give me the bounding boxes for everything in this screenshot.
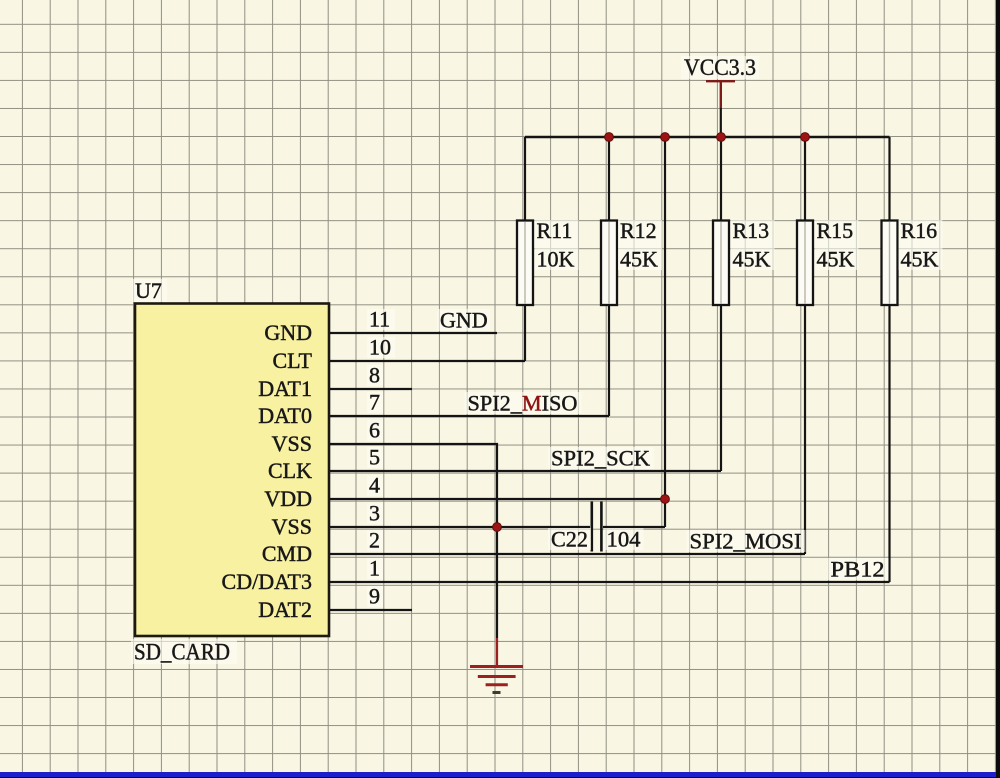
- junction dot pin 3 VSS / ground: [493, 523, 502, 532]
- resistor R16: [882, 218, 943, 305]
- svg-text:R15: R15: [817, 218, 854, 243]
- svg-text:3: 3: [369, 501, 380, 526]
- capacitor C22 designator: [548, 527, 591, 552]
- svg-text:CMD: CMD: [262, 541, 312, 566]
- pin 8 DAT1 wire: [330, 388, 412, 390]
- svg-text:2: 2: [369, 528, 380, 553]
- svg-text:CD/DAT3: CD/DAT3: [222, 569, 312, 594]
- svg-text:10K: 10K: [537, 247, 575, 272]
- pin number 8: [367, 363, 383, 388]
- pin number 2: [367, 528, 383, 553]
- svg-text:SPI2_MOSI: SPI2_MOSI: [690, 529, 802, 554]
- svg-text:10: 10: [369, 335, 391, 360]
- svg-text:SD_CARD: SD_CARD: [134, 640, 230, 665]
- svg-text:5: 5: [369, 445, 380, 470]
- svg-text:VSS: VSS: [272, 431, 312, 456]
- resistor R13: [713, 218, 775, 305]
- svg-text:SPI2_MISO: SPI2_MISO: [468, 391, 578, 416]
- svg-text:45K: 45K: [817, 247, 855, 272]
- resistor R15: [797, 218, 859, 305]
- svg-text:GND: GND: [440, 308, 488, 333]
- pin 3 VSS wire to C22 left plate: [330, 526, 590, 528]
- svg-text:R11: R11: [537, 218, 573, 243]
- svg-text:R16: R16: [901, 218, 938, 243]
- pin number 10: [367, 335, 395, 360]
- junction dot bus at R12: [605, 133, 614, 142]
- junction dot bus at VDD vertical: [661, 133, 670, 142]
- wire R12 vertical: [608, 137, 610, 416]
- junction dot pin 4 VDD: [661, 495, 670, 504]
- svg-text:CLT: CLT: [272, 348, 312, 373]
- svg-text:SPI2_SCK: SPI2_SCK: [551, 446, 650, 471]
- junction dot bus at R15: [801, 133, 810, 142]
- wire VDD vertical (VCC to pin 4 and C22): [664, 137, 666, 527]
- resistor R12: [601, 218, 662, 305]
- svg-text:DAT1: DAT1: [258, 376, 312, 401]
- svg-text:PB12: PB12: [831, 557, 885, 582]
- svg-text:45K: 45K: [901, 247, 939, 272]
- wire VCC stem to bus: [720, 108, 722, 137]
- wire R15 vertical: [804, 137, 806, 554]
- pin 10 CLT wire: [330, 360, 525, 362]
- power flag VCC3.3 label: [681, 55, 759, 80]
- svg-text:GND: GND: [264, 320, 312, 345]
- pin 7 DAT0 wire: [330, 415, 609, 417]
- svg-text:R13: R13: [733, 218, 770, 243]
- pin number 7: [367, 390, 383, 415]
- ground symbol small bottom tick: [493, 691, 501, 694]
- svg-text:11: 11: [369, 307, 390, 332]
- pin 1 CD/DAT3 wire: [330, 581, 890, 583]
- net label SPI2_SCK: [548, 446, 654, 471]
- pin 11 GND wire: [330, 332, 497, 334]
- pin number 3: [367, 501, 383, 526]
- pin 2 CMD wire: [330, 553, 805, 555]
- svg-text:U7: U7: [135, 278, 162, 303]
- pin 4 VDD wire: [330, 498, 665, 500]
- svg-text:R12: R12: [620, 218, 657, 243]
- svg-text:VDD: VDD: [264, 486, 312, 511]
- junction dot bus at R13 / VCC stem: [717, 133, 726, 142]
- capacitor C22 plates: [592, 502, 602, 552]
- power flag VCC3.3 bar symbol: [706, 81, 735, 108]
- pin 6 VSS wire to ground: [330, 444, 497, 638]
- pin number 5: [367, 445, 383, 470]
- svg-text:7: 7: [369, 390, 380, 415]
- svg-text:VSS: VSS: [272, 514, 312, 539]
- net label SPI2_MOSI: [687, 529, 806, 554]
- svg-text:DAT2: DAT2: [258, 597, 312, 622]
- wire R13 vertical: [720, 137, 722, 471]
- pin 9 DAT2 wire: [330, 609, 412, 611]
- net label SPI2_MISO: [465, 391, 582, 416]
- pin number 11: [367, 307, 395, 332]
- wire R16 vertical: [888, 137, 890, 582]
- svg-text:6: 6: [369, 418, 380, 443]
- resistor R11: [517, 218, 579, 305]
- wire R11 vertical: [524, 137, 526, 361]
- net label PB12: [828, 557, 889, 582]
- svg-text:45K: 45K: [620, 247, 658, 272]
- svg-text:DAT0: DAT0: [258, 403, 312, 428]
- wire C22 right plate to VDD vertical: [603, 526, 665, 528]
- pin number 4: [367, 473, 383, 498]
- ground symbol bars: [470, 667, 523, 685]
- svg-text:9: 9: [369, 584, 380, 609]
- svg-text:1: 1: [369, 556, 380, 581]
- svg-text:CLK: CLK: [268, 458, 312, 483]
- pin number 6: [367, 418, 383, 443]
- capacitor C22 value 104: [604, 527, 644, 552]
- pin number 9: [367, 584, 383, 609]
- pin 5 CLK wire: [330, 470, 721, 472]
- svg-text:VCC3.3: VCC3.3: [684, 55, 756, 80]
- component U7 SD_CARD body: [131, 278, 329, 665]
- svg-text:4: 4: [369, 473, 380, 498]
- svg-text:45K: 45K: [733, 247, 771, 272]
- ground symbol stem: [496, 638, 498, 666]
- net label GND: [437, 308, 490, 333]
- pin number 1: [367, 556, 383, 581]
- svg-text:C22: C22: [551, 527, 588, 552]
- svg-text:8: 8: [369, 363, 380, 388]
- wire VCC3.3 bus: [525, 136, 890, 138]
- svg-text:104: 104: [607, 527, 641, 552]
